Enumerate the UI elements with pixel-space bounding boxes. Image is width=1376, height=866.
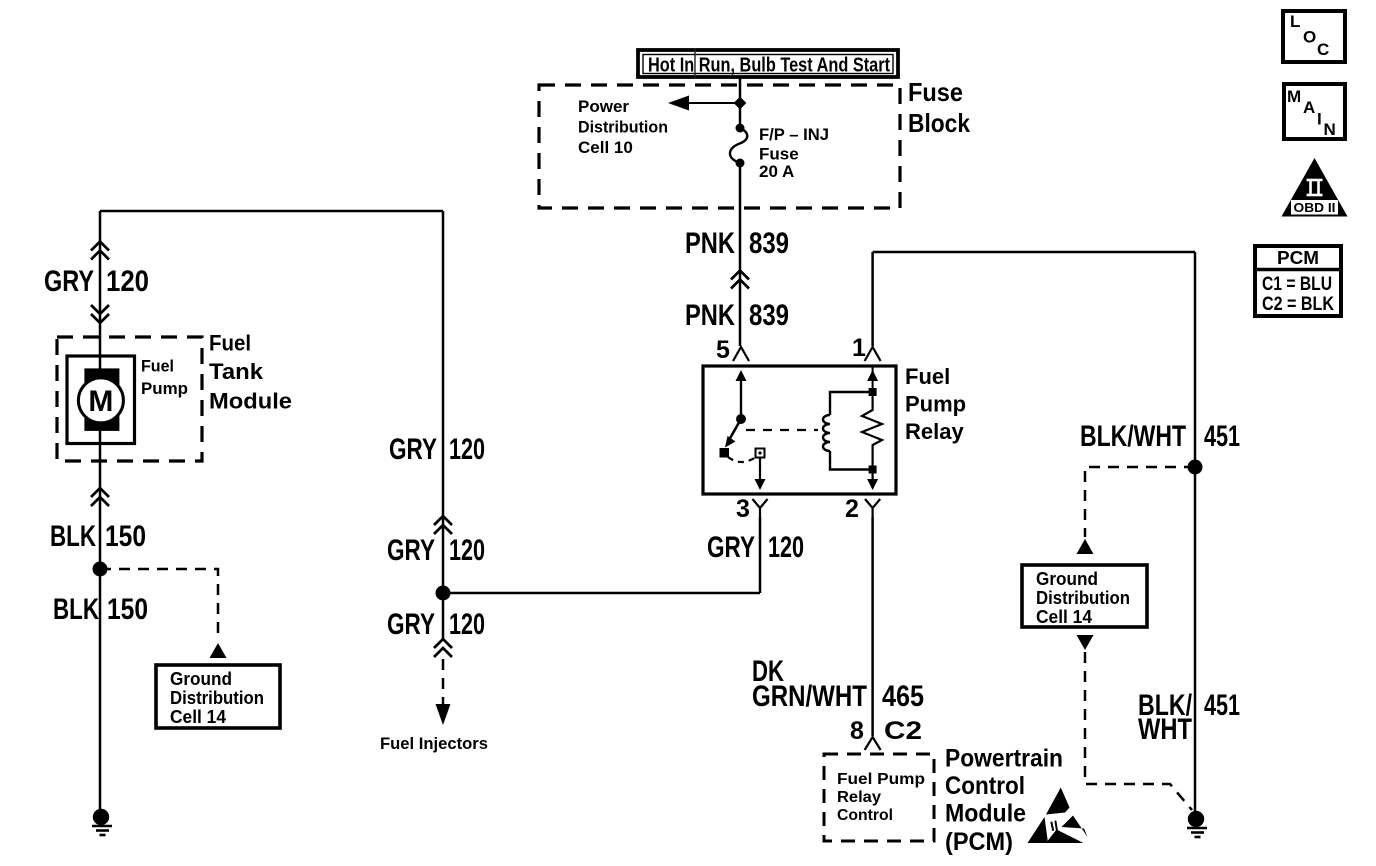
svg-text:451: 451 [1204,420,1240,453]
svg-text:BLK: BLK [50,520,96,553]
svg-text:Control: Control [837,807,893,824]
svg-text:L: L [1290,12,1300,31]
svg-text:Fuel: Fuel [141,357,174,376]
svg-text:120: 120 [449,433,485,466]
svg-text:GRN/WHT: GRN/WHT [752,680,867,713]
svg-text:M: M [1287,87,1301,106]
svg-text:Ground: Ground [170,669,232,689]
svg-text:GRY: GRY [44,265,94,298]
svg-text:Distribution: Distribution [1036,588,1130,608]
svg-text:C2 = BLK: C2 = BLK [1262,294,1334,315]
svg-text:150: 150 [107,593,148,626]
svg-text:Fuel Injectors: Fuel Injectors [380,734,488,753]
svg-text:Cell 14: Cell 14 [170,707,226,727]
svg-text:Fuse: Fuse [759,145,799,164]
svg-text:Cell 10: Cell 10 [578,138,633,157]
svg-text:(PCM): (PCM) [945,828,1013,856]
svg-text:Power: Power [578,97,629,116]
svg-text:Fuel Pump: Fuel Pump [837,771,925,788]
svg-text:C: C [1317,40,1329,59]
svg-text:Module: Module [209,389,292,414]
svg-text:GRY: GRY [387,608,435,641]
svg-text:O: O [1303,28,1316,47]
svg-text:A: A [1303,98,1315,117]
svg-text:Pump: Pump [141,379,188,398]
svg-text:I: I [1317,110,1322,129]
svg-text:PNK: PNK [685,227,735,260]
svg-text:GRY: GRY [387,534,435,567]
svg-text:C2: C2 [884,717,922,745]
svg-text:Control: Control [945,772,1025,800]
svg-text:3: 3 [736,495,750,523]
svg-text:Distribution: Distribution [578,118,668,137]
svg-text:Cell 14: Cell 14 [1036,607,1092,627]
svg-text:150: 150 [105,520,146,553]
svg-text:Fuse: Fuse [908,77,963,107]
svg-text:120: 120 [768,531,804,564]
svg-text:Fuel: Fuel [209,331,251,356]
svg-text:Relay: Relay [837,789,881,806]
svg-text:OBD II: OBD II [1294,200,1336,215]
svg-text:Pump: Pump [905,392,966,417]
svg-text:Ground: Ground [1036,569,1098,589]
svg-text:120: 120 [449,534,485,567]
svg-text:Relay: Relay [905,419,964,444]
svg-text:PNK: PNK [685,299,735,332]
svg-text:WHT: WHT [1138,713,1192,746]
svg-text:GRY: GRY [389,433,437,466]
svg-text:839: 839 [749,227,789,260]
svg-text:5: 5 [716,336,730,364]
svg-text:Fuel: Fuel [905,364,950,389]
svg-text:Block: Block [908,108,970,138]
svg-text:839: 839 [749,299,789,332]
svg-text:GRY: GRY [707,531,755,564]
svg-text:Distribution: Distribution [170,688,264,708]
svg-text:20 A: 20 A [759,162,794,181]
svg-text:M: M [88,385,113,418]
svg-text:Powertrain: Powertrain [945,745,1063,773]
svg-text:Module: Module [945,800,1026,828]
svg-text:120: 120 [106,265,149,298]
svg-text:PCM: PCM [1277,248,1319,268]
svg-text:Tank: Tank [209,359,264,384]
svg-text:F/P – INJ: F/P – INJ [759,125,829,144]
svg-text:120: 120 [449,608,485,641]
svg-text:451: 451 [1204,689,1240,722]
svg-text:N: N [1324,120,1336,139]
svg-text:BLK: BLK [53,593,99,626]
svg-text:2: 2 [845,495,859,523]
svg-text:Hot In Run, Bulb Test And Star: Hot In Run, Bulb Test And Start [648,55,890,77]
svg-text:465: 465 [882,680,924,713]
svg-text:BLK/WHT: BLK/WHT [1080,420,1186,453]
svg-text:C1 = BLU: C1 = BLU [1262,274,1332,295]
svg-text:8: 8 [850,717,864,745]
svg-text:1: 1 [852,334,866,362]
